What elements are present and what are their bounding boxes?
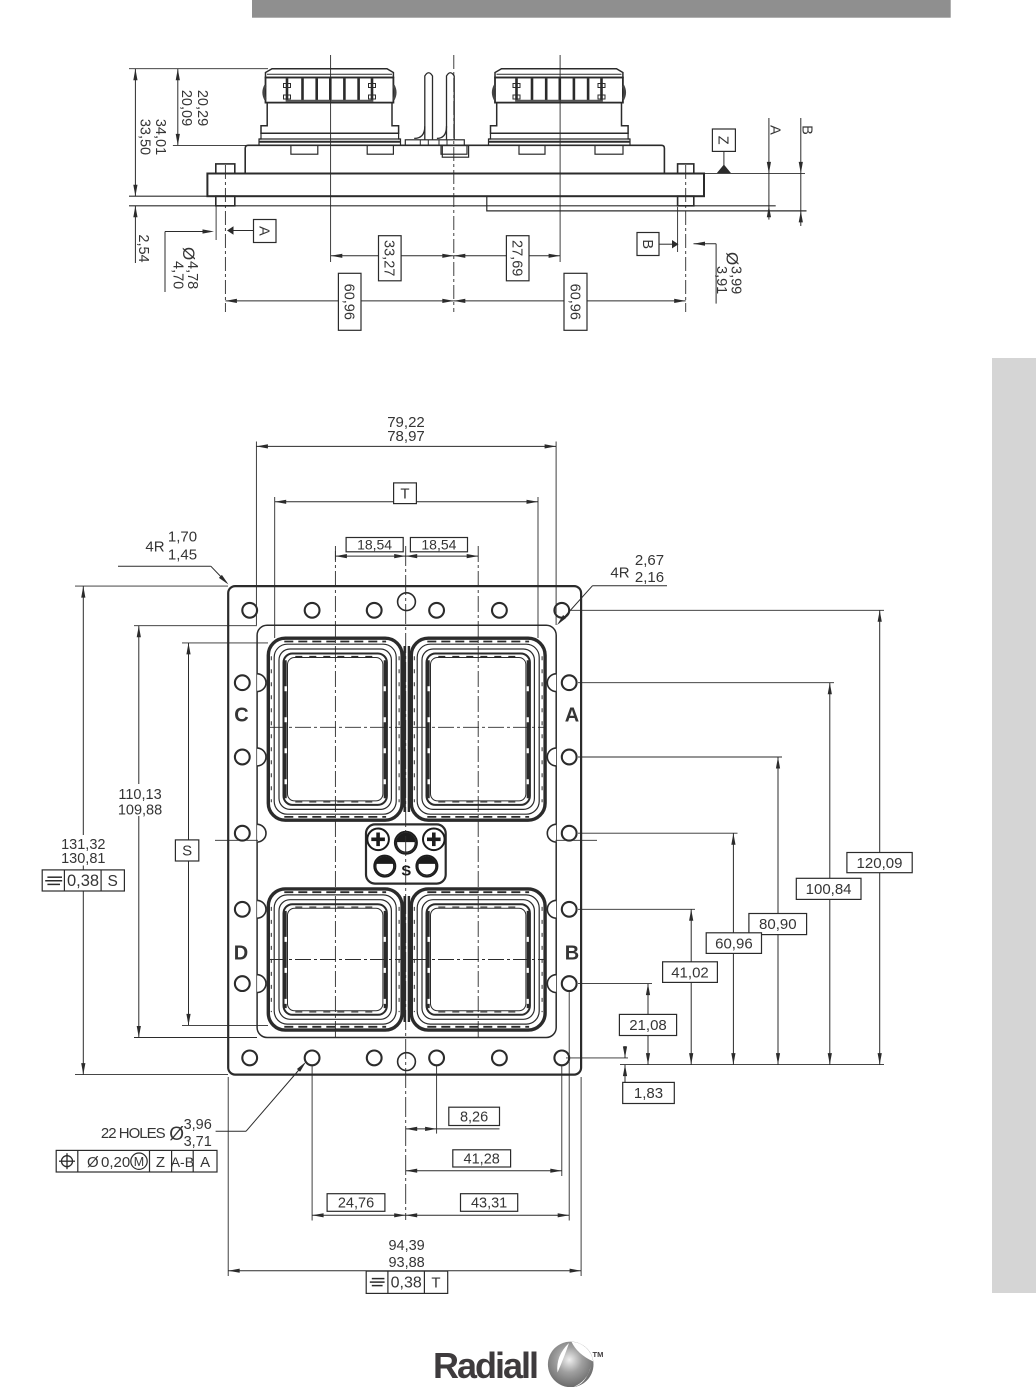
svg-text:0,38: 0,38 (391, 1275, 422, 1292)
svg-text:8,26: 8,26 (460, 1109, 488, 1125)
svg-text:Z: Z (156, 1154, 165, 1171)
svg-text:34,01: 34,01 (152, 119, 168, 155)
svg-text:2,67: 2,67 (635, 552, 664, 569)
svg-text:B: B (798, 125, 814, 135)
svg-text:Ø: Ø (179, 247, 198, 260)
svg-text:93,88: 93,88 (388, 1255, 424, 1271)
svg-text:18,54: 18,54 (357, 537, 392, 553)
svg-text:22 HOLES: 22 HOLES (101, 1125, 166, 1142)
svg-text:0,38: 0,38 (67, 872, 99, 890)
svg-text:60,96: 60,96 (341, 284, 357, 320)
svg-text:0,20: 0,20 (101, 1154, 130, 1171)
svg-text:S: S (401, 863, 411, 880)
svg-text:94,39: 94,39 (388, 1238, 424, 1254)
svg-text:33,27: 33,27 (381, 240, 397, 276)
svg-text:4R: 4R (145, 539, 164, 556)
svg-text:D: D (234, 943, 248, 965)
svg-text:18,54: 18,54 (421, 537, 456, 553)
svg-text:3,71: 3,71 (184, 1134, 212, 1150)
svg-text:T: T (400, 485, 409, 502)
svg-text:T: T (431, 1274, 440, 1291)
svg-text:130,81: 130,81 (61, 851, 105, 867)
svg-text:Ø: Ø (723, 252, 742, 265)
svg-text:41,02: 41,02 (671, 964, 709, 981)
svg-text:100,84: 100,84 (806, 881, 852, 898)
svg-text:1,83: 1,83 (634, 1085, 663, 1102)
svg-text:Ø: Ø (169, 1124, 184, 1145)
svg-text:27,69: 27,69 (509, 240, 525, 276)
svg-text:A: A (256, 226, 272, 236)
svg-text:110,13: 110,13 (118, 787, 161, 803)
svg-text:60,96: 60,96 (566, 284, 582, 320)
svg-text:A-B: A-B (171, 1154, 194, 1170)
svg-text:Radiall: Radiall (433, 1345, 537, 1386)
svg-text:80,90: 80,90 (759, 916, 797, 933)
svg-text:2,54: 2,54 (135, 234, 151, 262)
svg-text:S: S (182, 843, 192, 860)
svg-text:24,76: 24,76 (338, 1196, 374, 1212)
svg-text:4R: 4R (610, 565, 629, 582)
svg-text:21,08: 21,08 (629, 1017, 667, 1034)
svg-text:20,29: 20,29 (194, 90, 210, 126)
svg-text:60,96: 60,96 (715, 935, 753, 952)
svg-text:109,88: 109,88 (118, 802, 162, 818)
svg-text:78,97: 78,97 (387, 428, 425, 445)
svg-text:A: A (767, 125, 783, 135)
svg-text:C: C (234, 705, 248, 727)
svg-text:S: S (108, 873, 118, 890)
svg-text:120,09: 120,09 (857, 855, 903, 872)
svg-text:1,70: 1,70 (168, 529, 197, 546)
svg-text:TM: TM (593, 1350, 604, 1359)
svg-text:B: B (565, 943, 579, 965)
svg-text:3,96: 3,96 (184, 1117, 212, 1133)
svg-text:Z: Z (715, 136, 731, 145)
svg-text:41,28: 41,28 (464, 1151, 500, 1167)
svg-text:A: A (565, 705, 579, 727)
svg-text:4,70: 4,70 (170, 261, 186, 289)
svg-text:Ø: Ø (87, 1154, 99, 1171)
svg-text:33,50: 33,50 (136, 119, 152, 155)
svg-text:3,91: 3,91 (713, 266, 729, 294)
svg-text:20,09: 20,09 (178, 90, 194, 126)
svg-text:M: M (134, 1155, 144, 1169)
svg-text:43,31: 43,31 (471, 1196, 507, 1212)
svg-text:A: A (200, 1154, 210, 1171)
svg-text:1,45: 1,45 (168, 547, 197, 564)
svg-text:B: B (639, 239, 655, 249)
svg-text:2,16: 2,16 (635, 569, 664, 586)
